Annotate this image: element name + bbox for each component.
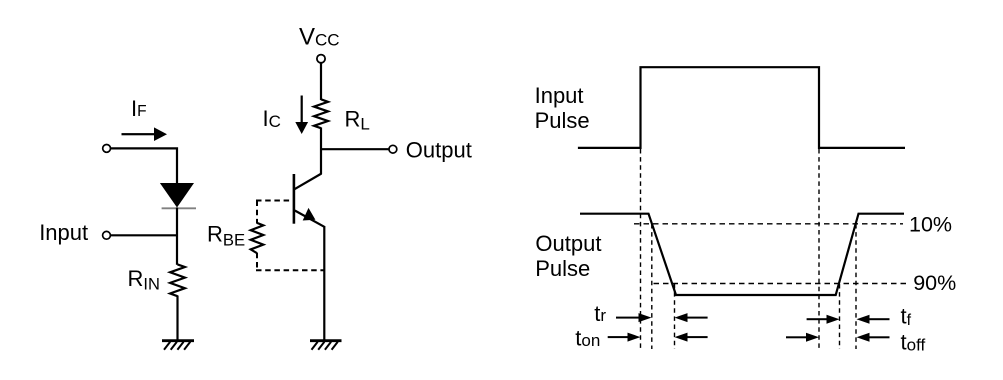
dashed marker fall 90 [674, 284, 676, 349]
arrow tr right [675, 313, 708, 322]
transistor emitter arrow [303, 208, 316, 221]
wire LED to node [176, 208, 178, 265]
svg-text:tf: tf [901, 304, 912, 330]
arrow tr left [616, 313, 652, 322]
ground transistor side [310, 341, 342, 350]
wire anode to LED [111, 148, 177, 183]
terminal anode [103, 145, 111, 153]
dashed marker rise 90 [839, 284, 841, 349]
svg-text:Output: Output [406, 138, 472, 163]
svg-text:Output: Output [535, 231, 601, 256]
svg-text:IC: IC [263, 106, 281, 131]
svg-text:10%: 10% [909, 212, 952, 236]
svg-text:VCC: VCC [299, 23, 340, 50]
resistor RBE [251, 223, 264, 253]
wire RL to collector [320, 128, 322, 175]
transistor base bar [293, 174, 296, 224]
dashed wire RBE lower [256, 253, 258, 270]
svg-text:Input: Input [39, 220, 88, 245]
dashed marker rise 10 [855, 224, 857, 349]
terminal VCC [317, 55, 325, 63]
arrow ton right [675, 333, 708, 342]
arrow toff left [786, 333, 819, 342]
svg-text:tr: tr [594, 301, 606, 326]
LED cathode bar [162, 207, 196, 209]
dashed wire base top [256, 201, 325, 271]
wire VCC to RL [320, 63, 322, 100]
dashed marker input fall [818, 149, 820, 349]
svg-text:RBE: RBE [207, 221, 245, 249]
terminal input [103, 231, 111, 239]
dashed marker fall 10 [651, 224, 653, 349]
svg-text:Pulse: Pulse [535, 256, 590, 281]
transistor collector lead [295, 174, 322, 190]
svg-text:RL: RL [345, 106, 370, 133]
svg-text:Input: Input [535, 83, 584, 108]
wire RIN to ground [176, 296, 178, 341]
current arrow IC [295, 96, 308, 135]
svg-text:toff: toff [901, 329, 926, 354]
transistor emitter lead [295, 211, 325, 227]
current arrow IF [122, 127, 168, 141]
wire emitter to ground [323, 226, 325, 340]
svg-text:IF: IF [131, 96, 147, 121]
arrow tf left [807, 315, 840, 324]
svg-text:ton: ton [575, 326, 600, 351]
LED D1 [160, 183, 194, 208]
svg-text:90%: 90% [913, 271, 956, 295]
dashed level 10 percent [634, 223, 903, 225]
ground input side [162, 341, 194, 350]
arrow ton left [608, 333, 641, 342]
svg-text:Pulse: Pulse [535, 108, 590, 133]
wire input to node [111, 234, 176, 236]
terminal output [389, 145, 397, 153]
dashed level 90 percent [654, 283, 908, 285]
dashed marker input rise [640, 149, 642, 349]
dashed wire RBE upper [256, 201, 258, 224]
resistor RL [314, 99, 328, 128]
svg-text:RIN: RIN [128, 266, 160, 293]
arrow tf right [857, 315, 890, 324]
arrow toff right [857, 333, 890, 342]
output pulse waveform [580, 214, 904, 295]
wire output [320, 148, 389, 150]
resistor RIN [170, 264, 185, 296]
input pulse waveform [578, 67, 905, 148]
dashed wire emitter bottom [256, 269, 325, 271]
